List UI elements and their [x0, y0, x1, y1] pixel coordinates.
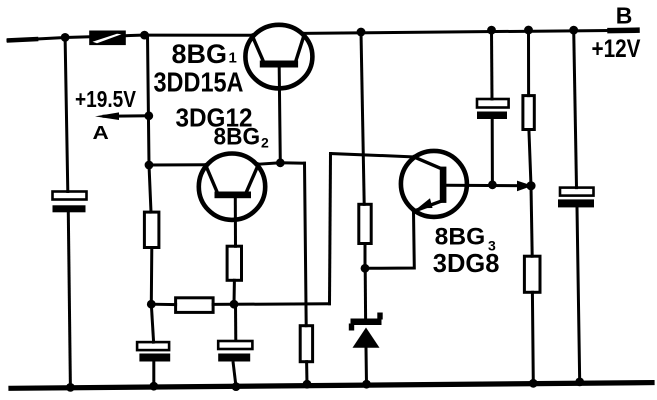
wire C3 to bottom rail — [233, 362, 236, 387]
wire top rail middle segment — [144, 34, 252, 37]
junction dot top rail at C4 — [487, 26, 496, 35]
wire node to capacitor C2 — [151, 304, 153, 342]
wire R6 to zener node — [364, 244, 367, 269]
wire Q2 emitter lead down — [234, 198, 237, 246]
resistor R8 — [524, 256, 540, 292]
wire top rail left end thick nub — [9, 39, 36, 40]
svg-text:8BG: 8BG — [214, 124, 261, 151]
junction dot collector at R7/R8 — [526, 181, 535, 190]
transistor Q3 8BG3/3DG8 — [401, 151, 467, 217]
wire bottom rail (ground return) — [11, 383, 652, 389]
wire R3 to bottom feedback wire — [233, 280, 236, 304]
wire Q1 base lead down — [279, 68, 280, 163]
wire R4 to riser corner — [213, 302, 329, 306]
resistor R5 — [300, 326, 312, 362]
junction dot node A — [144, 111, 153, 120]
node A arrow — [95, 112, 149, 120]
wire left node to Q2 base — [149, 163, 206, 166]
svg-text:A: A — [93, 123, 109, 143]
wire rail to R6 vertical — [361, 32, 364, 204]
capacitor C5 bottom plate — [558, 199, 594, 207]
wire second vertical upper — [148, 35, 152, 212]
capacitor C2 top plate — [137, 342, 169, 350]
junction dot zener top node — [361, 264, 370, 273]
capacitor C3 top plate — [218, 341, 252, 349]
capacitor C3 bottom plate — [218, 354, 250, 362]
wire C5 to bottom rail — [577, 207, 580, 382]
wire C1 to bottom rail — [68, 212, 70, 387]
capacitor C1 bottom plate — [53, 205, 86, 212]
capacitor C4 top plate — [477, 99, 509, 108]
junction dot collector at C4 — [488, 180, 497, 189]
wire top rail thick end near B — [610, 27, 637, 33]
transistor Q1 8BG1/3DD15A pass transistor — [245, 25, 312, 89]
junction dot Q2 base wire — [145, 161, 154, 170]
wire collector node to R8 — [531, 186, 532, 256]
wire zener node to emitter riser — [365, 211, 414, 268]
wire Q3 base horizontal — [331, 154, 414, 157]
wire feedback bottom horizontal — [151, 303, 175, 306]
junction dot top rail left — [61, 33, 70, 42]
wire rail to capacitor C5 — [574, 30, 577, 188]
junction dot bottom rail at C2 — [149, 382, 158, 391]
resistor R6 — [359, 204, 371, 243]
resistor R2 — [144, 212, 159, 247]
junction dot bottom rail at C5 — [575, 378, 584, 387]
capacitor C2 bottom plate — [139, 354, 170, 362]
wire Q3 collector horizontal — [446, 184, 531, 188]
junction dot bottom rail at zener — [362, 380, 371, 389]
wire rail to capacitor C4 — [490, 30, 494, 99]
svg-text:3DD15A: 3DD15A — [154, 67, 244, 98]
transistor Q2 8BG2/3DG12 — [199, 154, 265, 220]
junction dot bottom rail at R5 — [303, 380, 312, 389]
svg-text:B: B — [616, 3, 633, 29]
wire top rail left segment — [8, 35, 144, 40]
wire top rail right segment — [304, 30, 638, 33]
wire C4 to collector node — [491, 119, 494, 185]
capacitor C4 bottom plate — [477, 112, 507, 120]
wire R7 to collector node — [529, 130, 531, 186]
wire R5 to bottom rail — [305, 362, 308, 385]
svg-text:3DG8: 3DG8 — [433, 248, 500, 278]
junction dot top rail at R7 — [524, 26, 533, 35]
capacitor C5 top plate — [560, 188, 594, 196]
wire node down to R5 — [305, 163, 307, 326]
junction dot feedback left — [147, 300, 156, 309]
wire C2 to bottom rail — [152, 362, 155, 387]
wire rail to R7 — [527, 30, 530, 96]
junction dot bottom rail at left branch — [66, 383, 75, 392]
wire left branch vertical — [65, 37, 68, 191]
junction dot Q1 base / Q2 collector — [276, 158, 285, 167]
resistor R4 (horizontal) — [176, 298, 214, 313]
resistor R3 — [227, 246, 241, 280]
junction dot top rail at R6 branch — [357, 28, 366, 37]
resistor R1 (filled box in top rail) — [89, 31, 126, 46]
capacitor C1 top plate — [53, 192, 87, 200]
svg-text:1: 1 — [229, 50, 237, 67]
junction dot feedback at R3 — [230, 300, 239, 309]
resistor R7 — [523, 96, 534, 130]
svg-text:8BG: 8BG — [435, 224, 486, 251]
svg-text:+19.5V: +19.5V — [75, 86, 137, 112]
svg-text:2: 2 — [261, 134, 269, 150]
junction dot top rail at C5 — [569, 26, 578, 35]
wire Q3 emitter capacitor branch C3 — [234, 304, 237, 342]
svg-text:+12V: +12V — [592, 35, 641, 63]
wire R2 to node — [150, 248, 154, 305]
junction dot bottom rail at C3 — [232, 382, 241, 391]
zener diode D1 — [349, 268, 383, 384]
wire R8 to bottom rail — [531, 292, 535, 383]
wire riser up — [330, 154, 331, 304]
wire Q2 collector to base node — [259, 163, 305, 164]
junction dot bottom rail at R8 — [529, 379, 538, 388]
junction dot top rail at second vertical — [140, 31, 149, 40]
svg-text:8BG: 8BG — [172, 39, 228, 69]
